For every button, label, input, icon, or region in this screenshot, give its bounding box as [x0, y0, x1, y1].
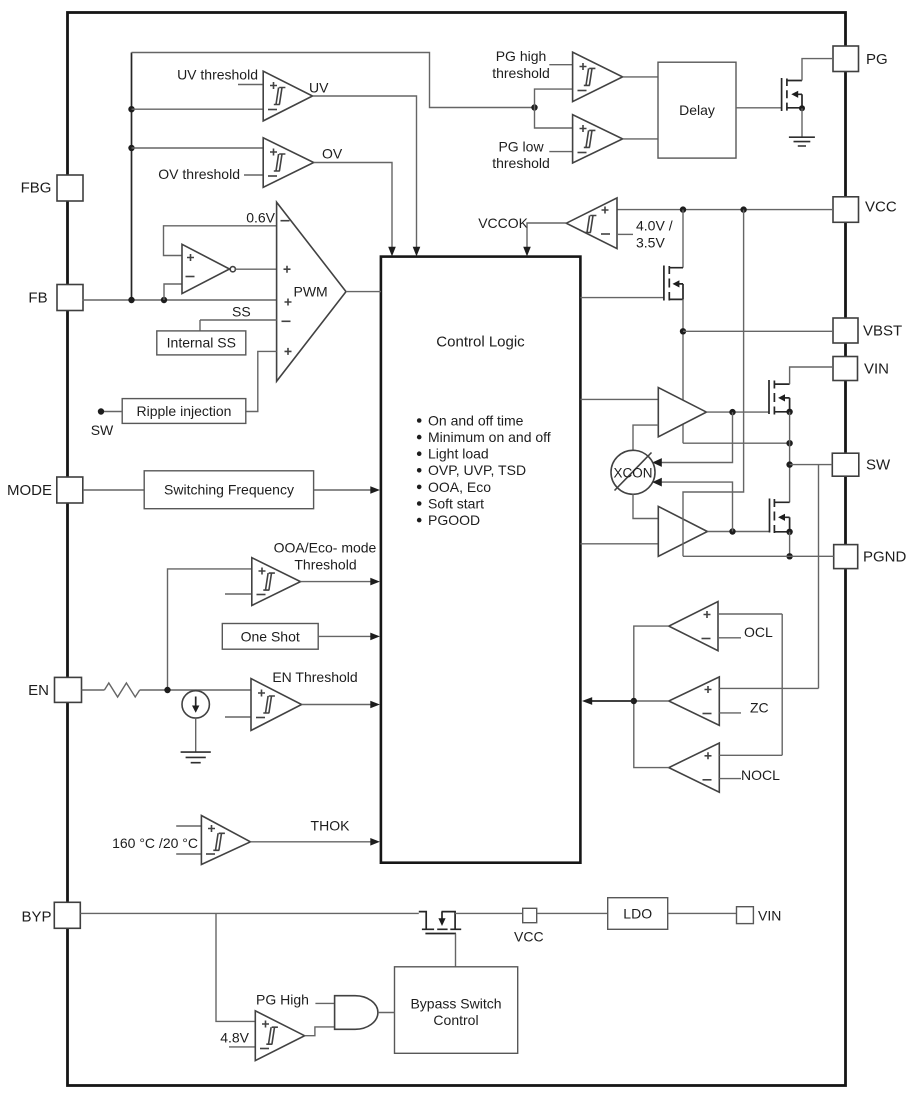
pin PG	[833, 46, 888, 72]
wire EN node to OOA comparator	[168, 569, 252, 690]
pin VBST	[833, 318, 902, 343]
wire XCON to high-side driver	[633, 425, 658, 450]
comparator VCCOK	[566, 198, 617, 249]
wire VBST	[683, 330, 833, 332]
svg-text:Soft start: Soft start	[428, 495, 484, 511]
wire FB pin to PWM	[83, 299, 277, 301]
ground (PG FET)	[789, 137, 815, 146]
wire PG high plus stub	[549, 64, 572, 66]
svg-text:4.8V: 4.8V	[220, 1030, 249, 1046]
svg-text:threshold: threshold	[492, 65, 550, 81]
wire BYP to bypass FET	[80, 912, 418, 914]
wire comparator to AND gate	[305, 1027, 335, 1036]
arrow into XCON lower	[652, 478, 662, 487]
transistor high-side power FET	[769, 380, 790, 415]
svg-text:VCC: VCC	[514, 929, 544, 945]
junction PG FET source	[799, 105, 805, 111]
comparator OV	[263, 138, 314, 188]
wire VCC node to LDO	[537, 912, 608, 914]
svg-text:Control Logic: Control Logic	[436, 334, 525, 351]
svg-text:UV threshold: UV threshold	[177, 67, 258, 83]
resistor EN input	[104, 683, 139, 697]
comparator OOA/Eco	[252, 558, 301, 606]
wire VCCOK minus stub	[617, 233, 633, 235]
wire PG High to AND gate	[315, 1002, 334, 1004]
wire PWM output	[346, 291, 381, 293]
svg-text:PG: PG	[866, 51, 888, 68]
transistor low-side power FET	[770, 499, 790, 534]
wire SS input	[200, 320, 277, 331]
junction VCC/driver rail	[740, 206, 746, 212]
wire control logic to low-side driver	[580, 543, 658, 545]
op-amp error amplifier	[182, 244, 235, 293]
wire UV minus input	[132, 108, 264, 110]
wire OOA output	[301, 581, 372, 583]
svg-text:EN: EN	[28, 682, 49, 699]
svg-text:PG High: PG High	[256, 992, 309, 1008]
svg-text:Bypass Switch: Bypass Switch	[410, 996, 501, 1012]
junction high-side source	[786, 409, 792, 415]
wire PG low minus stub	[549, 151, 572, 153]
wire ripple injection to PWM	[246, 351, 277, 411]
wire bus to control logic	[592, 700, 634, 702]
control logic box	[381, 257, 581, 863]
pin SW	[832, 453, 891, 476]
svg-text:threshold: threshold	[492, 155, 550, 171]
junction PG sense	[531, 104, 537, 110]
junction bootstrap/rail	[786, 440, 792, 446]
wire OV output to control logic	[314, 163, 392, 248]
svg-text:NOCL: NOCL	[741, 767, 780, 783]
wire OCL/NOCL sense rail	[781, 614, 783, 755]
arrow OV into control logic	[388, 247, 396, 257]
current source EN pulldown	[182, 691, 209, 718]
arrow into control logic (one shot)	[370, 633, 380, 641]
wire NOCL minus stub	[719, 778, 741, 780]
svg-text:THOK: THOK	[311, 817, 351, 833]
wire EN minus stub	[225, 716, 251, 718]
svg-text:MODE: MODE	[7, 482, 52, 499]
wire control logic to boost FET gate	[580, 297, 664, 299]
arrow into control logic (switching frequency)	[370, 486, 380, 494]
wire ZC minus stub	[719, 712, 741, 714]
svg-text:PG high: PG high	[496, 48, 547, 64]
comparator PWM	[277, 202, 346, 381]
transistor bypass switch FET	[419, 912, 461, 934]
wire EN pin to resistor	[82, 689, 105, 691]
wire error amp output	[236, 268, 277, 270]
wire EN comparator output	[302, 704, 371, 706]
svg-text:VCCOK: VCCOK	[478, 215, 528, 231]
wire bypass FET gate to control box	[455, 934, 457, 967]
AND gate bypass control	[335, 996, 378, 1030]
svg-text:Control: Control	[433, 1012, 478, 1028]
svg-text:PWM: PWM	[294, 284, 328, 300]
wire PG high output	[623, 76, 658, 78]
ground (EN current source)	[181, 752, 211, 763]
arrow into control logic (OOA)	[370, 578, 380, 586]
junction low-side gate sense	[729, 528, 735, 534]
arrow into control logic (current comparators)	[582, 697, 592, 705]
wire Delay to PG FET gate	[736, 107, 782, 109]
wire OCL minus stub	[718, 637, 741, 639]
wire PG FET source to ground	[801, 108, 803, 136]
svg-text:OCL: OCL	[744, 624, 773, 640]
svg-text:OV: OV	[322, 146, 343, 162]
svg-text:VIN: VIN	[864, 361, 889, 378]
wire OV threshold stub	[244, 174, 263, 176]
wire PGND line	[683, 555, 834, 557]
svg-text:160 °C /20 °C: 160 °C /20 °C	[112, 835, 198, 851]
svg-text:SW: SW	[91, 422, 114, 438]
comparator NOCL	[669, 743, 720, 792]
XCON block	[611, 450, 655, 494]
junction FB wire/trunk	[128, 297, 134, 303]
wire PG low plus input	[535, 108, 573, 129]
wire VCCOK output	[527, 223, 566, 248]
wire comparator output bus	[634, 626, 669, 768]
wire NOCL plus input	[719, 754, 782, 756]
svg-text:ZC: ZC	[750, 700, 769, 716]
wire error amp minus input	[164, 284, 182, 300]
svg-text:Threshold: Threshold	[294, 557, 356, 573]
wire high-side gate sense to XCON	[657, 412, 733, 462]
box LDO	[608, 898, 668, 930]
junction FB/UV	[128, 106, 134, 112]
wire PG low output	[623, 138, 658, 140]
junction EN node	[164, 687, 170, 693]
box Bypass Switch Control	[395, 967, 518, 1054]
wire control logic to high-side driver	[580, 398, 658, 400]
svg-text:0.6V: 0.6V	[246, 210, 275, 226]
wire current source to ground	[195, 718, 197, 752]
svg-text:OV threshold: OV threshold	[158, 166, 240, 182]
wire VCC to boost FET drain	[682, 210, 684, 268]
wire FB trunk vertical	[131, 53, 133, 301]
svg-text:OOA/Eco- mode: OOA/Eco- mode	[274, 540, 377, 556]
wire AND gate output	[378, 1012, 395, 1014]
svg-text:BYP: BYP	[21, 909, 51, 926]
svg-text:Delay: Delay	[679, 102, 715, 118]
svg-text:XCON: XCON	[613, 466, 652, 481]
svg-text:SS: SS	[232, 304, 251, 320]
junction VBST tap	[680, 328, 686, 334]
svg-text:Light load: Light load	[428, 446, 489, 462]
comparator thermal shutdown	[201, 816, 250, 865]
wire thermal plus stub	[176, 825, 201, 827]
arrow VCCOK into control logic	[523, 247, 531, 257]
svg-text:One Shot: One Shot	[241, 628, 300, 644]
wire high-side driver output	[706, 411, 769, 413]
svg-text:Minimum on and off: Minimum on and off	[428, 429, 551, 445]
wire one shot output	[318, 635, 371, 637]
svg-text:PGND: PGND	[863, 549, 907, 566]
node SW	[98, 408, 104, 414]
junction FB/OV	[128, 145, 134, 151]
junction low-side source	[786, 529, 792, 535]
arrow into XCON upper	[652, 458, 662, 467]
wire ZC plus input	[719, 687, 818, 689]
pin FB	[28, 285, 83, 311]
svg-text:EN Threshold: EN Threshold	[272, 669, 357, 685]
svg-text:On and off time: On and off time	[428, 412, 524, 428]
transistor PG open-drain FET	[782, 78, 802, 111]
box Internal SS	[157, 331, 246, 355]
wire PG high minus input	[535, 89, 573, 107]
wire SW to ZC comparator	[818, 465, 820, 689]
wire low-side gate sense to XCON	[657, 482, 733, 531]
wire low-side source to PGND	[789, 532, 791, 557]
pin MODE	[7, 477, 83, 503]
junction SW tap	[786, 461, 792, 467]
node VCC internal	[514, 908, 544, 944]
pin FBG	[21, 175, 83, 201]
svg-text:LDO: LDO	[623, 906, 652, 922]
comparator ZC	[669, 677, 720, 725]
comparator EN threshold	[251, 679, 302, 731]
buffer low-side driver	[658, 506, 707, 556]
arrow UV into control logic	[413, 247, 421, 257]
transistor boost switch (VBST)	[664, 266, 683, 301]
wire OCL plus input	[718, 613, 782, 615]
buffer high-side driver	[658, 388, 706, 437]
node VIN internal	[737, 907, 782, 924]
wire XCON to low-side driver	[633, 494, 658, 518]
box Switching Frequency	[144, 471, 313, 509]
wire UV threshold stub	[238, 84, 263, 86]
comparator PG high bypass (4.8V)	[255, 1011, 304, 1061]
wire OV plus input	[132, 147, 264, 149]
pin EN	[28, 677, 81, 702]
wire switching frequency output	[314, 489, 371, 491]
wire LDO to VIN node	[668, 912, 737, 914]
comparator PG high	[573, 52, 623, 101]
svg-text:VIN: VIN	[758, 907, 781, 923]
wire UV output to control logic	[313, 96, 417, 248]
svg-text:VCC: VCC	[865, 199, 897, 216]
comparator PG low	[573, 115, 623, 163]
junction high-side gate sense	[729, 409, 735, 415]
comparator OCL	[669, 602, 718, 651]
wire boost FET source to bootstrap	[682, 299, 684, 443]
box Ripple injection	[122, 399, 246, 424]
wire FB to PG comparators top route	[132, 53, 535, 108]
svg-text:FB: FB	[28, 290, 47, 307]
arrow into control logic (THOK)	[370, 838, 380, 846]
comparator UV	[263, 71, 312, 121]
pin VCC	[833, 197, 897, 223]
svg-text:Switching Frequency: Switching Frequency	[164, 482, 294, 498]
wire SW stub	[101, 411, 122, 413]
wire resistor to comparator	[140, 689, 251, 691]
wire high-side drain to VIN	[790, 367, 833, 384]
junction comparator bus	[631, 698, 637, 704]
pin BYP	[21, 902, 80, 928]
wire VCC rail	[617, 209, 833, 211]
svg-text:OVP, UVP, TSD: OVP, UVP, TSD	[428, 462, 526, 478]
svg-text:FBG: FBG	[21, 180, 52, 197]
svg-text:Internal SS: Internal SS	[167, 335, 236, 351]
wire BYP to 4.8V comparator	[216, 913, 255, 1021]
junction PGND rail	[786, 553, 792, 559]
wire driver return rail	[683, 210, 744, 557]
wire 4.8V minus stub	[229, 1046, 255, 1048]
svg-text:Ripple injection: Ripple injection	[137, 403, 232, 419]
junction VCC/boost FET	[680, 206, 686, 212]
svg-text:3.5V: 3.5V	[636, 235, 665, 251]
svg-text:VBST: VBST	[863, 323, 902, 340]
svg-text:UV: UV	[309, 80, 329, 96]
wire low-side driver output	[707, 531, 769, 533]
svg-text:OOA, Eco: OOA, Eco	[428, 479, 491, 495]
arrow into control logic (EN)	[370, 701, 380, 709]
svg-text:4.0V /: 4.0V /	[636, 218, 673, 234]
junction FB/error amp	[161, 297, 167, 303]
box Delay	[658, 62, 736, 158]
box One Shot	[222, 624, 318, 650]
wire PG FET drain to PG pin	[802, 59, 833, 81]
wire bootstrap to switch node rail	[683, 442, 790, 444]
pin PGND	[834, 545, 907, 569]
svg-text:PG low: PG low	[498, 139, 544, 155]
wire THOK output	[250, 841, 371, 843]
wire thermal minus stub	[176, 853, 201, 855]
pin VIN	[833, 357, 889, 381]
wire MODE to switching frequency	[83, 489, 144, 491]
wire switch node rail	[789, 412, 791, 503]
wire bypass FET to VCC node	[455, 912, 523, 914]
wire OOA minus stub	[225, 593, 252, 595]
control logic bullet list	[417, 412, 551, 528]
wire SW to pin	[790, 464, 833, 466]
svg-text:SW: SW	[866, 457, 891, 474]
wire 0.6V reference loop	[164, 226, 277, 256]
svg-text:PGOOD: PGOOD	[428, 512, 480, 528]
